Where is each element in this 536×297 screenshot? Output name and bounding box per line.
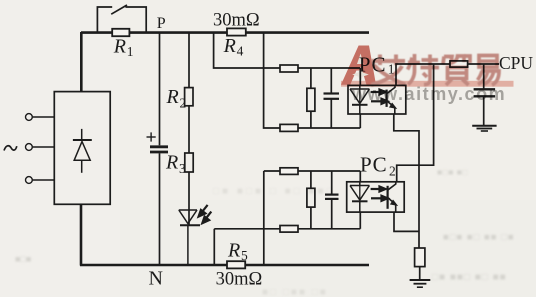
svg-text:P: P	[157, 15, 166, 32]
svg-text:■□■ ■□ ■■ □■: ■□■ ■□ ■■ □■	[443, 232, 515, 243]
svg-text:■□ □■■ □■: ■□ □■■ □■	[262, 287, 328, 297]
svg-text:R: R	[165, 152, 178, 174]
svg-text:5: 5	[241, 248, 248, 263]
svg-text:CPU: CPU	[499, 53, 533, 73]
svg-text:■□■: ■□■	[15, 254, 31, 264]
svg-text:3: 3	[179, 161, 186, 176]
svg-text:2: 2	[180, 95, 187, 110]
svg-text:R: R	[223, 35, 236, 57]
svg-text:N: N	[149, 267, 163, 289]
svg-text:R: R	[166, 86, 179, 108]
svg-text:30mΩ: 30mΩ	[213, 10, 260, 30]
svg-text:□■ ■□■ □ ■□ ■■□: □■ ■□■ □ ■□ ■■□	[213, 186, 336, 197]
svg-text:1: 1	[127, 44, 134, 59]
svg-text:www.aitmy.com: www.aitmy.com	[351, 84, 506, 104]
svg-text:R: R	[227, 239, 240, 261]
svg-text:4: 4	[237, 44, 244, 59]
svg-text:□■ ■■□ ■□ ■■: □■ ■■□ ■□ ■■	[432, 272, 507, 283]
svg-text:R: R	[113, 35, 126, 57]
svg-text:2: 2	[389, 164, 396, 179]
svg-text:■□■ ■□: ■□■ ■□	[437, 167, 468, 177]
svg-text:30mΩ: 30mΩ	[216, 270, 263, 290]
svg-text:PC: PC	[360, 153, 388, 177]
